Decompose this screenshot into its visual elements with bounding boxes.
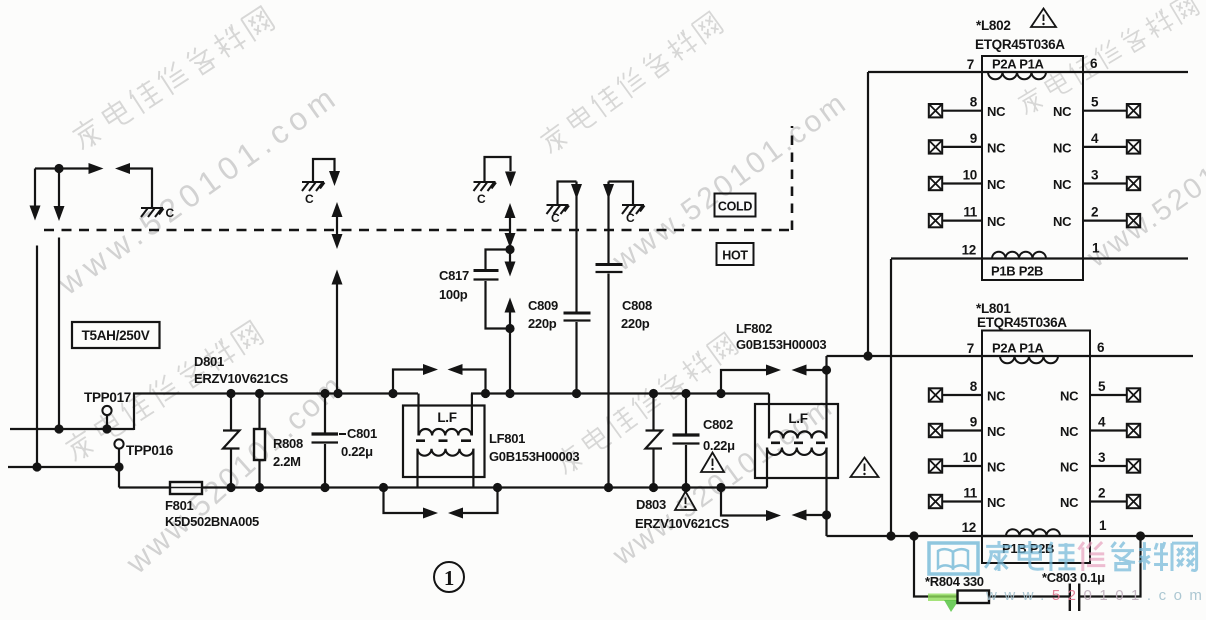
double arrow across isolation (x510) (509, 216, 511, 234)
svg-text:G0B153H00003: G0B153H00003 (489, 449, 579, 464)
L802 pin 10 NC (943, 182, 983, 184)
svg-text:P2A P1A: P2A P1A (992, 341, 1045, 356)
line filter LF801 box (403, 406, 485, 478)
HOT label box (717, 243, 754, 265)
svg-text:10: 10 (963, 168, 977, 183)
svg-text:K5D502BNA005: K5D502BNA005 (165, 514, 259, 529)
wire L801 pin12/1 bus y536 (827, 535, 1194, 537)
svg-text:220p: 220p (621, 316, 650, 331)
node TPP016 junction (114, 462, 123, 471)
svg-text:4: 4 (1091, 131, 1099, 146)
L802 pin 3 NC (1083, 182, 1127, 184)
svg-text:*C803 0.1μ: *C803 0.1μ (1042, 570, 1105, 585)
arrow from earth (left) (115, 163, 130, 174)
svg-text:12: 12 (962, 520, 976, 535)
svg-text:NC: NC (987, 460, 1006, 475)
wire line2 horizontal y467 (8, 466, 119, 468)
warning triangle near C802 (701, 453, 724, 473)
svg-text:3: 3 (1098, 450, 1106, 465)
svg-text:G0B153H00003: G0B153H00003 (736, 337, 826, 352)
svg-text:8: 8 (970, 379, 978, 394)
svg-text:9: 9 (970, 131, 977, 146)
capacitor C801 (324, 394, 326, 433)
arrow to earth (right) (89, 163, 104, 174)
L802 pin12 wire left (891, 257, 982, 259)
wire to C803 (989, 595, 1069, 597)
wire AC line 2 below dashed (58, 238, 60, 430)
svg-text:C809: C809 (528, 298, 558, 313)
svg-text:D803: D803 (636, 497, 666, 512)
node TPP017 junction (102, 424, 111, 433)
L802 winding P1B P2B (982, 257, 1083, 259)
svg-text:*L802: *L802 (976, 18, 1011, 33)
svg-text:3: 3 (1091, 168, 1099, 183)
svg-text:C: C (305, 192, 314, 206)
watermark row 6 right www.520101.com (1081, 96, 1206, 274)
svg-text:2.2M: 2.2M (273, 454, 301, 469)
wire drop to fuse bus (118, 467, 120, 488)
svg-text:12: 12 (962, 243, 976, 258)
LF801 core dashes (416, 439, 471, 442)
svg-text:8: 8 (970, 95, 978, 110)
test point TPP016 (114, 439, 123, 448)
svg-text:LF801: LF801 (489, 431, 525, 446)
L801 pin 11 NC (943, 500, 983, 502)
LF801 bottom winding (418, 449, 474, 456)
wire AC line 2 down arrow (58, 169, 60, 207)
svg-text:L.F: L.F (788, 411, 807, 426)
dashed isolation line horizontal (44, 229, 792, 232)
svg-text:4: 4 (1098, 415, 1106, 430)
varistor D803 (652, 394, 654, 431)
svg-text:P1B P2B: P1B P2B (991, 264, 1043, 279)
svg-text:NC: NC (1053, 214, 1072, 229)
L801 pin 8 NC (943, 394, 983, 396)
fuse F801 (170, 482, 202, 494)
watermark row 3 center hanzi (537, 10, 724, 156)
svg-text:1: 1 (1092, 241, 1100, 256)
svg-text:C817: C817 (439, 268, 469, 283)
svg-text:NC: NC (987, 177, 1006, 192)
svg-text:TPP017: TPP017 (84, 390, 131, 405)
svg-text:C801: C801 (347, 426, 377, 441)
svg-text:C802: C802 (703, 417, 733, 432)
L801 pin 3 NC (1090, 465, 1127, 467)
watermark row 4 center www.520101.com (606, 85, 854, 278)
ground C (for C817 branch) (474, 182, 497, 191)
svg-text:2: 2 (1091, 205, 1098, 220)
node (54, 424, 63, 433)
transformer L801 box (982, 331, 1090, 564)
svg-text:HOT: HOT (722, 249, 748, 263)
wire line1 horizontal y429 (10, 428, 134, 430)
wire with up arrow to live bus (x337) (336, 283, 338, 394)
L802 pin 9 NC (943, 146, 983, 148)
arrows inside C817 loop on main line (509, 250, 511, 263)
ground C top-left (141, 208, 164, 217)
svg-text:100p: 100p (439, 287, 468, 302)
svg-text:0.22μ: 0.22μ (703, 438, 735, 453)
svg-text:F801: F801 (165, 498, 194, 513)
green highlight marks (928, 594, 979, 602)
svg-text:NC: NC (1053, 177, 1072, 192)
svg-text:7: 7 (967, 57, 974, 72)
wire jumper above LF801 (393, 370, 423, 394)
svg-text:P2A P1A: P2A P1A (992, 57, 1045, 72)
capacitor C809 (575, 182, 577, 312)
L802 pin 2 NC (1083, 220, 1127, 222)
svg-text:NC: NC (987, 140, 1006, 155)
svg-text:C: C (477, 192, 486, 206)
svg-text:220p: 220p (528, 316, 557, 331)
COLD label box (715, 194, 756, 217)
svg-text:9: 9 (970, 415, 977, 430)
svg-text:C: C (551, 211, 560, 225)
svg-text:7: 7 (967, 341, 974, 356)
LF802 bottom winding (767, 448, 827, 455)
warning triangle D803 (675, 492, 696, 511)
wire live bus LF801 to LF802 (471, 392, 769, 394)
node C817 bottom (505, 324, 514, 333)
wire bracket to down arrow (313, 159, 335, 181)
wire branch from pin12 bus down (914, 536, 958, 597)
watermark row 2 top-left www.520101.com (50, 77, 346, 302)
svg-text:R808: R808 (273, 436, 303, 451)
LF801 top winding (419, 429, 471, 436)
L802 pin 8 NC (943, 110, 983, 112)
svg-text:*R804 330: *R804 330 (925, 574, 984, 589)
L801 winding P1B P2B (982, 535, 1090, 537)
svg-text:*L801: *L801 (976, 301, 1011, 316)
wire AC line 1 down arrow (34, 169, 36, 207)
svg-text:6: 6 (1097, 340, 1105, 355)
svg-text:C: C (626, 211, 635, 225)
svg-text:LF802: LF802 (736, 321, 772, 336)
watermark row 10 center-bottom www.520101.com (606, 391, 839, 573)
svg-text:11: 11 (963, 486, 977, 501)
L802 pin 4 NC (1083, 146, 1127, 148)
wire down to live bus (509, 329, 511, 394)
svg-text:ETQR45T036A: ETQR45T036A (977, 315, 1067, 330)
L802 pin7 wire left (868, 71, 982, 73)
wire to chassis ground C (130, 167, 152, 169)
wire jumper below LF801 (384, 488, 424, 514)
watermark row 7 left-bottom hanzi (62, 319, 264, 464)
svg-text:ETQR45T036A: ETQR45T036A (975, 37, 1065, 52)
double arrow across isolation (x337) (336, 214, 338, 237)
svg-text:L.F: L.F (437, 410, 456, 425)
wire AC input horizontal (35, 167, 89, 169)
bracket to branch (485, 157, 511, 181)
svg-text:T5AH/250V: T5AH/250V (82, 328, 150, 343)
resistor R804 (958, 591, 990, 604)
svg-text:ERZV10V621CS: ERZV10V621CS (635, 516, 730, 531)
svg-text:COLD: COLD (718, 200, 752, 214)
wire C803 up to pin1 bus (1079, 536, 1140, 597)
L802 pin1 wire right (1083, 257, 1188, 259)
svg-text:C808: C808 (622, 298, 652, 313)
svg-text:10: 10 (963, 450, 977, 465)
teal watermark book icon (929, 543, 978, 574)
transformer L802 box (982, 56, 1083, 280)
svg-text:D801: D801 (194, 354, 224, 369)
svg-text:C: C (166, 206, 175, 220)
svg-text:NC: NC (1060, 460, 1079, 475)
svg-text:ERZV10V621CS: ERZV10V621CS (194, 371, 289, 386)
LF802 terminals (768, 394, 770, 439)
ground C (for C808) (622, 205, 645, 214)
resistor R808 (258, 394, 260, 430)
svg-text:1: 1 (1099, 518, 1107, 533)
L801 pin 4 NC (1090, 429, 1127, 431)
test point TPP017 (102, 406, 111, 415)
wire jumper below LF802 (721, 488, 766, 516)
svg-text:NC: NC (1053, 140, 1072, 155)
dashed isolation line vertical (791, 126, 794, 230)
L801 pin 9 NC (943, 429, 983, 431)
wire AC line 1 below dashed (36, 246, 38, 468)
L802 pin 6 wire (1083, 71, 1188, 73)
LF801 terminals (417, 394, 419, 436)
node live bus arrow line (333, 389, 342, 398)
wire L801 pin7 feed y356 (827, 355, 983, 357)
LF802 core dashes (771, 441, 825, 444)
svg-text:0.22μ: 0.22μ (341, 444, 373, 459)
L801 pin 10 NC (943, 465, 983, 467)
wire L802 pin12 drop x891 (890, 259, 892, 536)
capacitor C803 (1069, 584, 1071, 612)
L801 pin 5 NC (1090, 394, 1127, 396)
L801 pin 2 NC (1090, 500, 1127, 502)
svg-text:NC: NC (987, 104, 1006, 119)
teal watermark hanzi row (985, 541, 1012, 571)
ground C second (302, 182, 325, 191)
svg-text:NC: NC (987, 214, 1006, 229)
wire L802 pin7 drop x868 (867, 72, 869, 356)
line filter LF802 box (755, 404, 838, 478)
sheet number 1 circled (434, 562, 464, 592)
node joint x868 (863, 351, 872, 360)
svg-text:NC: NC (987, 389, 1006, 404)
svg-text:5: 5 (1091, 95, 1099, 110)
watermark row 1 top-left hanzi (69, 5, 275, 153)
node (32, 462, 41, 471)
svg-text:5: 5 (1098, 379, 1106, 394)
label box T5AH/250V (72, 322, 160, 348)
capacitor C817 side loop (486, 250, 511, 329)
ground C (for C809) (547, 205, 570, 214)
node C817 top (505, 245, 514, 254)
capacitor C808 (607, 182, 609, 264)
svg-text:NC: NC (987, 495, 1006, 510)
L802 pin 5 NC (1083, 110, 1127, 112)
svg-text:NC: NC (987, 424, 1006, 439)
warning triangle mid-right (851, 458, 879, 478)
svg-text:1: 1 (444, 566, 454, 590)
node AC input junction (54, 164, 63, 173)
svg-text:NC: NC (1060, 424, 1079, 439)
svg-text:11: 11 (963, 205, 977, 220)
LF802 top winding (769, 431, 826, 438)
svg-text:2: 2 (1098, 486, 1105, 501)
capacitor C802 (685, 394, 687, 434)
watermark row 9 center-bottom hanzi (552, 331, 739, 477)
svg-text:6: 6 (1090, 56, 1098, 71)
wire rise to live bus (133, 394, 135, 431)
watermark row 8 bottom www.520101.com (119, 367, 351, 581)
svg-text:NC: NC (1053, 104, 1072, 119)
watermark row 5 right hanzi (1015, 0, 1200, 117)
wire jumper above LF802 (721, 370, 766, 394)
L802 pin 11 NC (943, 220, 983, 222)
wire neutral bus y487.5 (119, 486, 767, 488)
varistor D801 (230, 394, 232, 431)
L801 pin 6 wire (1090, 355, 1193, 357)
svg-text:www.520101.com: www.520101.com (985, 587, 1206, 604)
svg-text:TPP016: TPP016 (126, 443, 174, 458)
svg-text:NC: NC (1060, 495, 1079, 510)
svg-text:NC: NC (1060, 389, 1079, 404)
